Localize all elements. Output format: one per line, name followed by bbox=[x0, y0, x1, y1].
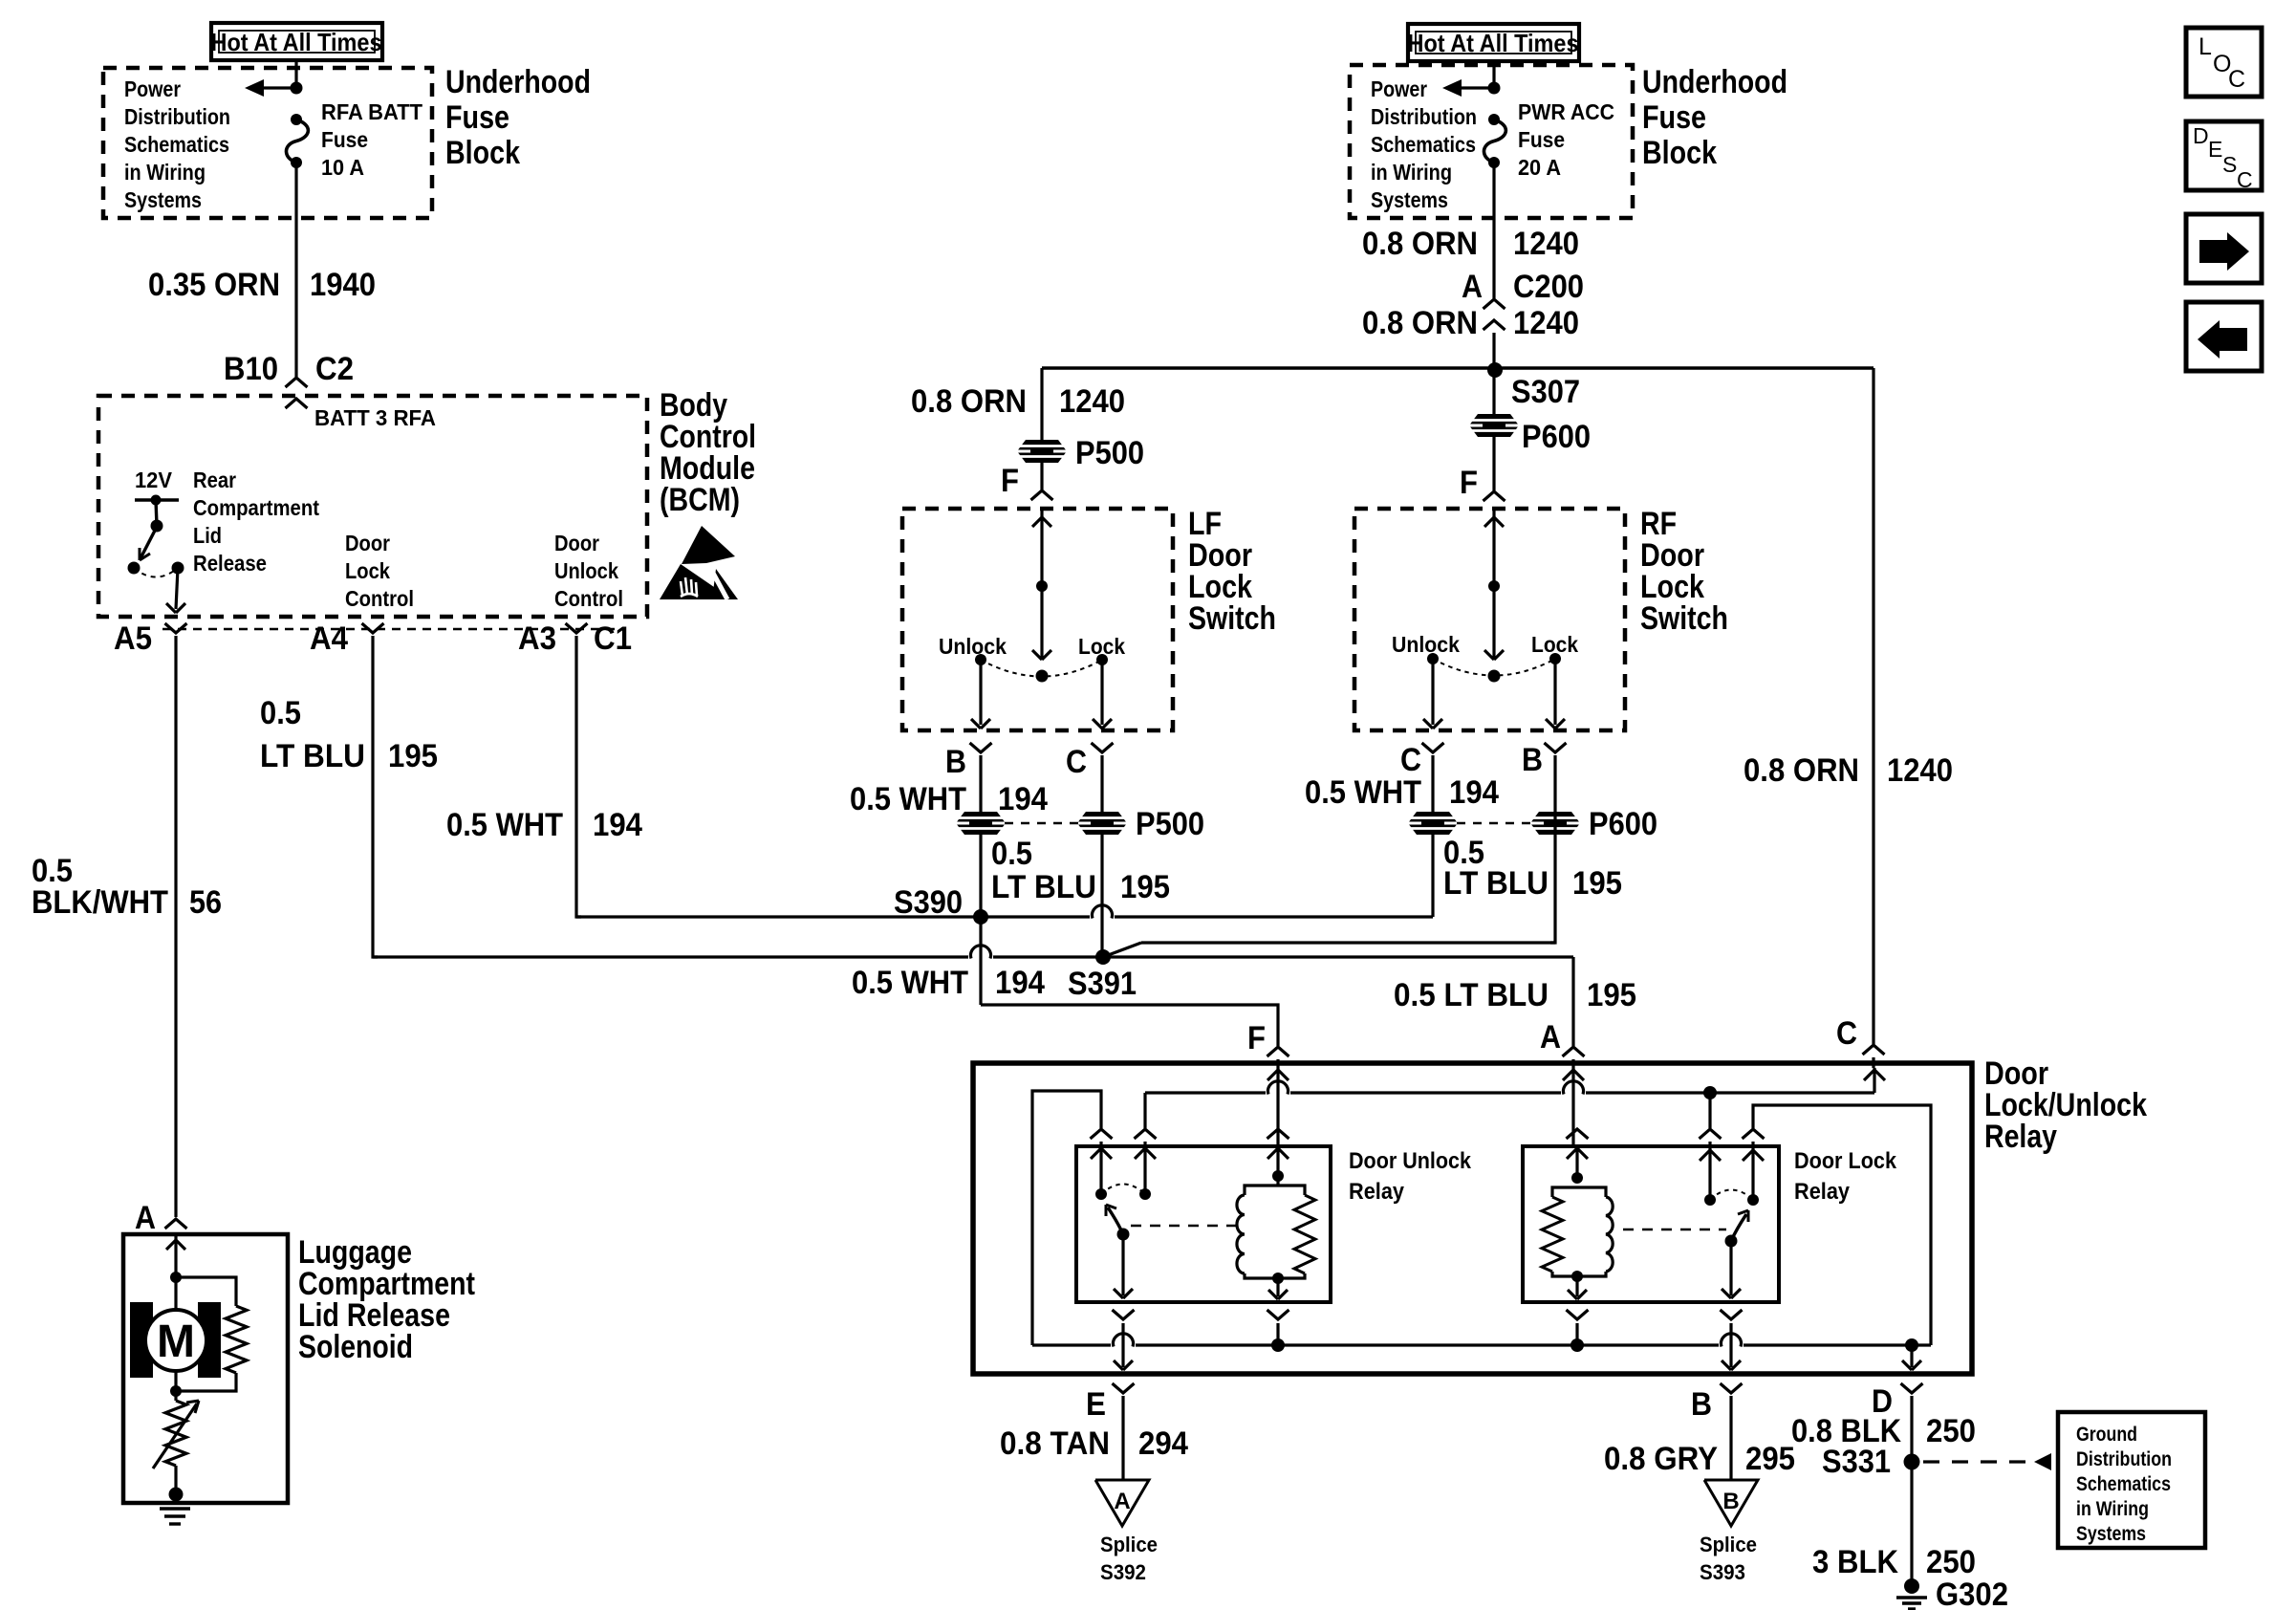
svg-text:C: C bbox=[1066, 744, 1087, 780]
relay contacts: door unlock bbox=[1095, 1188, 1107, 1200]
svg-text:Hot At All Times: Hot At All Times bbox=[211, 28, 382, 56]
svg-text:Unlock: Unlock bbox=[939, 634, 1007, 659]
svg-text:0.8 ORN: 0.8 ORN bbox=[1362, 226, 1478, 262]
svg-text:A: A bbox=[1540, 1019, 1561, 1055]
svg-text:L: L bbox=[2199, 33, 2212, 60]
svg-text:295: 295 bbox=[1745, 1441, 1795, 1477]
wire: unlock left contact riser bbox=[1091, 1129, 1113, 1139]
svg-text:294: 294 bbox=[1138, 1425, 1188, 1462]
svg-text:0.35 ORN: 0.35 ORN bbox=[148, 267, 280, 303]
wire: lock common down to B bbox=[1729, 1241, 1732, 1295]
RF Door Lock Switch dashed box bbox=[1354, 509, 1625, 730]
svg-text:0.5 WHT: 0.5 WHT bbox=[852, 965, 968, 1001]
LF switch common feed bbox=[1040, 509, 1043, 586]
svg-text:Compartment: Compartment bbox=[193, 495, 319, 520]
svg-text:Unlock: Unlock bbox=[554, 558, 618, 583]
wire: lock left contact riser bbox=[1708, 1093, 1711, 1128]
svg-text:Door: Door bbox=[345, 531, 390, 555]
Door Unlock Relay inner box bbox=[1076, 1146, 1331, 1302]
svg-text:Solenoid: Solenoid bbox=[298, 1329, 413, 1365]
svg-text:Lid: Lid bbox=[193, 523, 222, 548]
wire: 12V switch to A5 bbox=[176, 568, 178, 609]
svg-text:Switch: Switch bbox=[1188, 600, 1276, 637]
svg-text:Schematics: Schematics bbox=[2076, 1473, 2171, 1495]
coil: door unlock relay bbox=[1276, 1146, 1279, 1176]
svg-text:Power: Power bbox=[124, 76, 181, 101]
splice S307 bbox=[1487, 362, 1503, 378]
svg-text:G302: G302 bbox=[1936, 1577, 2008, 1610]
wire: lock right contact riser to bottom rail bbox=[1753, 1105, 1931, 1345]
svg-text:194: 194 bbox=[998, 781, 1048, 817]
svg-text:20 A: 20 A bbox=[1518, 155, 1561, 180]
icon: previous arrow box bbox=[2186, 302, 2262, 371]
Door Lock Relay inner box bbox=[1523, 1146, 1779, 1302]
svg-text:0.8 GRY: 0.8 GRY bbox=[1604, 1441, 1718, 1477]
svg-text:1240: 1240 bbox=[1887, 752, 1953, 789]
svg-text:BATT 3 RFA: BATT 3 RFA bbox=[314, 405, 436, 430]
node: bus to lock relay left contact bbox=[1703, 1086, 1717, 1099]
svg-text:194: 194 bbox=[1449, 774, 1499, 811]
wire: S390/B to relay F bbox=[979, 917, 982, 1005]
svg-text:194: 194 bbox=[593, 807, 642, 843]
svg-text:Relay: Relay bbox=[1794, 1179, 1851, 1205]
wire: 0.8 ORN 1240 down right side to relay C bbox=[1872, 368, 1874, 1044]
motor M: lid release solenoid bbox=[174, 1277, 177, 1311]
svg-text:Block: Block bbox=[1642, 135, 1717, 171]
LF terminals B / C bbox=[970, 743, 992, 752]
svg-text:Underhood: Underhood bbox=[445, 64, 591, 100]
svg-text:C200: C200 bbox=[1513, 269, 1584, 305]
svg-text:250: 250 bbox=[1926, 1413, 1976, 1449]
dashed: lock coil to arm bbox=[1623, 1229, 1726, 1231]
svg-text:F: F bbox=[1247, 1020, 1266, 1056]
svg-text:(BCM): (BCM) bbox=[660, 482, 740, 518]
svg-text:0.5 LT BLU: 0.5 LT BLU bbox=[1394, 977, 1549, 1013]
svg-text:A3: A3 bbox=[518, 620, 556, 657]
Body Control Module (BCM) dashed box bbox=[98, 396, 647, 617]
svg-text:Relay: Relay bbox=[1984, 1119, 2057, 1155]
svg-text:Ground: Ground bbox=[2076, 1424, 2137, 1446]
svg-text:1240: 1240 bbox=[1513, 305, 1579, 341]
splice S391 bbox=[1095, 949, 1111, 965]
svg-text:Door Lock: Door Lock bbox=[1794, 1148, 1897, 1174]
wire: P500 to LF switch F bbox=[1040, 462, 1043, 490]
svg-text:C: C bbox=[2237, 167, 2253, 192]
terminal A5 bbox=[165, 623, 187, 633]
svg-text:B: B bbox=[1691, 1386, 1712, 1423]
wire: D drop bbox=[1910, 1345, 1913, 1367]
terminal E bbox=[1113, 1383, 1135, 1393]
svg-text:Release: Release bbox=[193, 551, 267, 576]
svg-text:C: C bbox=[1400, 742, 1421, 778]
svg-text:250: 250 bbox=[1926, 1544, 1976, 1580]
dashed: unlock coil to arm bbox=[1131, 1225, 1241, 1228]
svg-text:195: 195 bbox=[1572, 865, 1622, 902]
svg-text:A4: A4 bbox=[310, 620, 348, 657]
wire: C200 to S307, 0.8 ORN 1240 bbox=[1492, 333, 1495, 370]
svg-text:C: C bbox=[2228, 66, 2245, 93]
LF B wire with 0.5 WHT 194 bbox=[979, 755, 982, 813]
icon: LOC box bbox=[2186, 28, 2262, 97]
svg-text:M: M bbox=[157, 1316, 195, 1367]
wire: S331 to G302, 3 BLK 250 bbox=[1910, 1462, 1913, 1581]
node: F coil to bottom rail bbox=[1271, 1338, 1285, 1352]
svg-text:F: F bbox=[1001, 463, 1019, 499]
svg-text:Door Unlock: Door Unlock bbox=[1349, 1148, 1472, 1174]
wire: S390 rail (0.5 WHT 194) bbox=[576, 915, 1090, 918]
svg-text:D: D bbox=[2193, 123, 2209, 148]
RF C wire with 0.5 WHT 194 bbox=[1431, 755, 1434, 813]
node: solenoid top junction bbox=[170, 1272, 182, 1283]
connector P600 (inline pair) bbox=[1431, 813, 1434, 917]
svg-text:C2: C2 bbox=[315, 351, 354, 387]
wire: B to splice S393, 0.8 GRY 295 bbox=[1729, 1396, 1732, 1480]
svg-text:BLK/WHT: BLK/WHT bbox=[32, 884, 168, 921]
wire: S391 rail (0.5 LT BLU 195) bbox=[373, 955, 968, 958]
svg-text:LT BLU: LT BLU bbox=[991, 869, 1096, 905]
connector P600 (feed) bbox=[1469, 414, 1519, 437]
arrow: power distribution ref (left) bbox=[250, 86, 296, 89]
svg-text:S391: S391 bbox=[1068, 966, 1137, 1002]
svg-text:Switch: Switch bbox=[1640, 600, 1728, 637]
svg-text:S307: S307 bbox=[1511, 374, 1580, 410]
switch arm: door lock relay bbox=[1725, 1235, 1738, 1248]
Ground Distribution Schematics box bbox=[2058, 1412, 2205, 1548]
variable resistor to ground bbox=[174, 1391, 177, 1401]
fuse F: PWR ACC Fuse 20 A bbox=[1488, 114, 1500, 125]
svg-text:C1: C1 bbox=[594, 620, 632, 657]
icon: next arrow box bbox=[2186, 214, 2262, 283]
svg-text:Unlock: Unlock bbox=[1392, 632, 1460, 657]
terminal B bbox=[1721, 1383, 1743, 1393]
svg-text:0.5 WHT: 0.5 WHT bbox=[446, 807, 563, 843]
wire: LF C down to S391 bbox=[1100, 834, 1103, 957]
svg-text:Control: Control bbox=[345, 586, 414, 611]
LF Door Lock Switch dashed box bbox=[902, 509, 1173, 730]
wire: unlock right contact riser bbox=[1143, 1093, 1146, 1128]
wire: rail down to P600 bbox=[1492, 368, 1495, 415]
svg-text:in Wiring: in Wiring bbox=[124, 160, 206, 185]
wire: main 0.8 ORN feed rail bbox=[1042, 366, 1874, 369]
splice S331 bbox=[1904, 1454, 1920, 1470]
svg-text:195: 195 bbox=[1120, 869, 1170, 905]
svg-text:S392: S392 bbox=[1100, 1560, 1146, 1584]
node: A coil to bottom rail bbox=[1570, 1338, 1584, 1352]
dashed: S331 to ground distribution bbox=[1923, 1460, 2034, 1463]
svg-text:0.8 ORN: 0.8 ORN bbox=[911, 383, 1027, 420]
svg-text:Distribution: Distribution bbox=[1371, 104, 1477, 129]
LF switch: wires to B and C bbox=[979, 660, 982, 725]
wire: C inside riser to bus bbox=[1873, 1068, 1875, 1093]
svg-text:Block: Block bbox=[445, 135, 520, 171]
resistor: solenoid parallel bbox=[226, 1306, 247, 1373]
splice symbol B (S393) bbox=[1704, 1480, 1758, 1526]
wire: F inside drop bbox=[1276, 1068, 1279, 1146]
svg-text:S393: S393 bbox=[1700, 1560, 1745, 1584]
Underhood Fuse Block (left) dashed box bbox=[103, 68, 432, 218]
svg-text:1240: 1240 bbox=[1513, 226, 1579, 262]
ground: solenoid case bbox=[169, 1488, 184, 1502]
connector P500 (inline pair) bbox=[979, 813, 982, 917]
splice S390 bbox=[973, 909, 988, 925]
svg-text:S: S bbox=[2222, 152, 2237, 177]
terminal D bbox=[1901, 1383, 1923, 1393]
svg-text:0.5: 0.5 bbox=[991, 836, 1032, 872]
wire: rail down to P500 bbox=[1040, 368, 1043, 442]
svg-text:PWR ACC: PWR ACC bbox=[1518, 99, 1614, 124]
svg-text:A: A bbox=[1114, 1489, 1130, 1514]
RF switch common feed bbox=[1492, 509, 1495, 586]
wire: A5 to solenoid, 0.5 BLK/WHT 56 bbox=[174, 636, 177, 1217]
coil: door lock relay bbox=[1575, 1146, 1578, 1178]
wire: E loop (unlock common) bbox=[1032, 1091, 1101, 1345]
svg-text:0.5 WHT: 0.5 WHT bbox=[1305, 774, 1421, 811]
wire: C1 (0.5 WHT 194) down and right to S390 bbox=[576, 636, 581, 917]
svg-text:A: A bbox=[1462, 269, 1483, 305]
svg-text:B: B bbox=[1722, 1489, 1739, 1514]
svg-text:Hot At All Times: Hot At All Times bbox=[1408, 29, 1579, 57]
svg-text:0.5: 0.5 bbox=[260, 695, 301, 731]
RF switch: wires to C and B bbox=[1431, 659, 1434, 725]
BCM bottom connector row dashed line bbox=[162, 628, 619, 631]
svg-text:C: C bbox=[1836, 1015, 1857, 1052]
node: fuse feed junction (right) bbox=[1488, 82, 1501, 95]
wire: to parallel resistor bbox=[176, 1277, 236, 1306]
wire: RF B down to S391 branch line bbox=[1550, 813, 1555, 943]
wire: fuse to C200 bbox=[1492, 163, 1495, 298]
svg-text:Fuse: Fuse bbox=[1642, 99, 1706, 136]
svg-text:Distribution: Distribution bbox=[2076, 1448, 2172, 1470]
svg-text:E: E bbox=[2208, 137, 2222, 162]
svg-text:P600: P600 bbox=[1589, 806, 1657, 842]
svg-text:56: 56 bbox=[189, 884, 222, 921]
svg-text:10 A: 10 A bbox=[321, 155, 364, 180]
wire: unlock common down to E bbox=[1121, 1234, 1124, 1295]
svg-text:Splice: Splice bbox=[1700, 1533, 1757, 1556]
svg-text:0.5 WHT: 0.5 WHT bbox=[850, 781, 966, 817]
svg-text:P600: P600 bbox=[1522, 419, 1591, 455]
wire: S391 to relay A bbox=[1103, 955, 1573, 958]
arrow: power distribution ref (right) bbox=[1448, 86, 1494, 89]
wire: internal B+ bus (C to both relays) bbox=[1145, 1091, 1266, 1094]
label: Hot At All Times (left) bbox=[211, 23, 382, 60]
switch arm: door unlock relay bbox=[1117, 1229, 1130, 1241]
svg-text:Lock: Lock bbox=[345, 558, 390, 583]
svg-text:0.8 TAN: 0.8 TAN bbox=[1000, 1425, 1110, 1462]
wire: A inside drop bbox=[1571, 1068, 1574, 1146]
svg-text:Schematics: Schematics bbox=[124, 132, 229, 157]
terminal A3 / C1 bbox=[566, 623, 588, 633]
svg-text:LT BLU: LT BLU bbox=[260, 738, 365, 774]
wire: hot box to fuse block (left) bbox=[294, 60, 297, 88]
svg-text:Systems: Systems bbox=[124, 187, 202, 212]
Door Lock/Unlock Relay outline box bbox=[973, 1063, 1972, 1374]
svg-text:Rear: Rear bbox=[193, 468, 236, 492]
svg-text:P500: P500 bbox=[1075, 435, 1144, 471]
wire: P600 to RF switch F bbox=[1492, 436, 1495, 490]
svg-text:Systems: Systems bbox=[2076, 1523, 2146, 1545]
wire: solenoid feed bbox=[174, 1234, 177, 1277]
svg-text:B: B bbox=[1522, 742, 1543, 778]
svg-text:195: 195 bbox=[1587, 977, 1636, 1013]
wire: E to splice S392, 0.8 TAN 294 bbox=[1121, 1396, 1124, 1480]
svg-text:Systems: Systems bbox=[1371, 187, 1448, 212]
ground G302 bbox=[1904, 1578, 1919, 1594]
node: solenoid bottom junction bbox=[170, 1385, 182, 1397]
svg-text:Distribution: Distribution bbox=[124, 104, 230, 129]
svg-text:Schematics: Schematics bbox=[1371, 132, 1476, 157]
wire: S391 to RF B (diagonal + horizontal) bbox=[1103, 943, 1141, 957]
icon: DESC box bbox=[2186, 121, 2262, 190]
svg-text:A: A bbox=[135, 1200, 156, 1236]
svg-text:A5: A5 bbox=[114, 620, 152, 657]
svg-text:Splice: Splice bbox=[1100, 1533, 1158, 1556]
svg-text:1940: 1940 bbox=[310, 267, 376, 303]
svg-text:RFA BATT: RFA BATT bbox=[321, 99, 422, 124]
svg-text:Fuse: Fuse bbox=[445, 99, 509, 136]
node: D drop from bottom rail bbox=[1905, 1338, 1918, 1352]
svg-text:Underhood: Underhood bbox=[1642, 64, 1787, 100]
svg-text:S331: S331 bbox=[1822, 1444, 1891, 1480]
connector B10/C2 chevrons bbox=[286, 378, 308, 387]
wire: A4 (0.5 LT BLU 195) down and right to S391 bbox=[373, 636, 378, 957]
svg-text:LT BLU: LT BLU bbox=[1443, 865, 1549, 902]
svg-text:1240: 1240 bbox=[1059, 383, 1125, 420]
svg-text:12V: 12V bbox=[135, 468, 173, 492]
fuse F: RFA BATT Fuse 10 A bbox=[291, 114, 302, 125]
svg-text:in Wiring: in Wiring bbox=[1371, 160, 1452, 185]
svg-text:P500: P500 bbox=[1136, 806, 1204, 842]
wire: D to S331, 0.8 BLK 250 bbox=[1910, 1396, 1913, 1462]
node: fuse feed junction (left) bbox=[291, 82, 303, 95]
terminal A4 bbox=[362, 623, 384, 633]
Underhood Fuse Block (right) dashed box bbox=[1350, 65, 1633, 218]
svg-text:195: 195 bbox=[388, 738, 438, 774]
relay contacts: door lock bbox=[1704, 1194, 1716, 1206]
svg-text:B10: B10 bbox=[224, 351, 278, 387]
wire: fuse to B10 connector, 0.35 ORN 1940 bbox=[294, 163, 297, 377]
svg-text:B: B bbox=[945, 744, 966, 780]
wire: hot box to fuse block (right) bbox=[1492, 61, 1495, 88]
wire: internal bottom rail bbox=[1032, 1343, 1111, 1346]
svg-text:in Wiring: in Wiring bbox=[2076, 1498, 2149, 1520]
svg-text:Power: Power bbox=[1371, 76, 1427, 101]
svg-text:Fuse: Fuse bbox=[1518, 127, 1565, 152]
connector A/C200 chevrons bbox=[1484, 299, 1505, 309]
splice symbol A (S392) bbox=[1095, 1480, 1149, 1526]
Luggage Compartment Lid Release Solenoid box bbox=[123, 1234, 288, 1503]
svg-text:194: 194 bbox=[995, 965, 1045, 1001]
svg-text:Relay: Relay bbox=[1349, 1179, 1405, 1205]
svg-text:E: E bbox=[1086, 1386, 1106, 1423]
svg-text:F: F bbox=[1460, 465, 1478, 501]
svg-text:3 BLK: 3 BLK bbox=[1812, 1544, 1898, 1580]
svg-text:Control: Control bbox=[554, 586, 623, 611]
svg-text:Door: Door bbox=[554, 531, 599, 555]
connector P500 (feed) bbox=[1017, 440, 1067, 463]
svg-text:0.8 ORN: 0.8 ORN bbox=[1744, 752, 1859, 789]
svg-text:0.8 ORN: 0.8 ORN bbox=[1362, 305, 1478, 341]
label: Hot At All Times (right) bbox=[1408, 24, 1579, 61]
RF terminals C / B bbox=[1422, 743, 1444, 752]
ESD sensitivity symbol bbox=[682, 526, 735, 564]
svg-text:Fuse: Fuse bbox=[321, 127, 368, 152]
svg-text:S390: S390 bbox=[894, 884, 963, 921]
